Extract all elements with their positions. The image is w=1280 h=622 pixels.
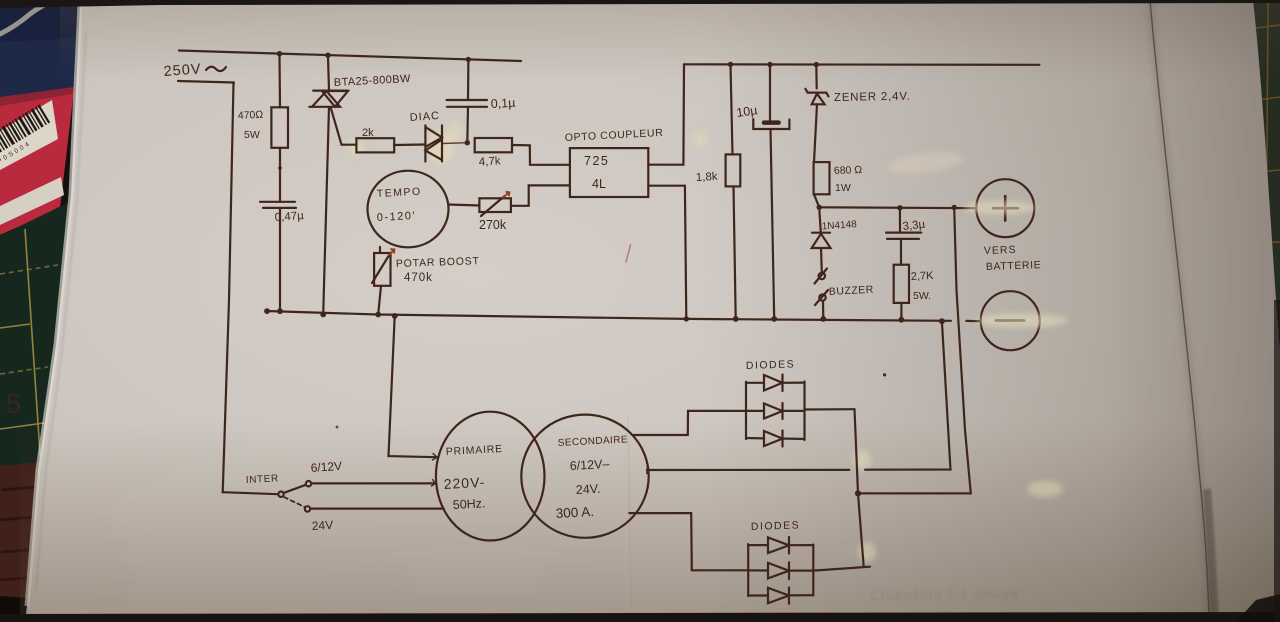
minus sign (996, 319, 1024, 322)
wire: 0,1u cap top lead from rail (467, 60, 470, 100)
grey cable top-left (0, 4, 46, 34)
faint paper fold, center-bottom (628, 415, 631, 608)
wire: secondary center tap (to minus) (647, 321, 951, 470)
paper crease shadow right (1150, 0, 1209, 622)
node L1: 250V AC label (163, 61, 202, 80)
switch INTER: feed wire (223, 492, 278, 494)
wire: 10u bottom lead (771, 129, 775, 319)
label 4,7k (479, 155, 502, 168)
wire: 1N4148 to buzzer (820, 248, 823, 272)
junction dot rail/opto (684, 316, 689, 321)
resistor 680R 1W (814, 162, 830, 194)
svg-text:DIODES: DIODES (746, 358, 796, 372)
wire: 3,3u top lead (899, 208, 901, 233)
green mat wedge, top-right (1250, 0, 1280, 335)
label 3,3u (902, 219, 926, 233)
diode D3 (746, 431, 805, 447)
svg-text:0,1µ: 0,1µ (490, 96, 515, 111)
junction dot rail2/1,8k (728, 62, 733, 67)
red arrow tip 270k (503, 192, 509, 198)
bottom dark strip (0, 612, 1280, 622)
wood table, bottom-left (0, 462, 40, 604)
label 1N4148 (821, 219, 857, 232)
wire: 470R to C0,47 (279, 148, 281, 202)
wire: 2,7k to bottom rail (900, 303, 902, 320)
upper diode bank left bus (745, 382, 747, 439)
svg-text:0,47µ: 0,47µ (274, 210, 304, 224)
label OPTO COUPLEUR 725 4L (565, 127, 664, 191)
stray ink dot (883, 373, 886, 376)
junction dot rail/1,8k (733, 316, 739, 322)
wire: 1N4148 top lead (819, 207, 821, 232)
svg-text:5W: 5W (244, 129, 260, 141)
wire: 2k to diac (394, 143, 425, 146)
junction dot +/3,3u (897, 205, 902, 210)
wire: + feed from bus to + terminal (858, 208, 971, 494)
wire: tempo to 270k (448, 205, 479, 206)
junction dot rail/left end (264, 308, 270, 314)
wire: triac main lead to bottom rail (323, 107, 329, 314)
wire: zener top lead (815, 65, 818, 89)
wire: 680R bottom to +node (814, 194, 819, 207)
svg-text:220V-: 220V- (443, 474, 485, 492)
wire: potar to bottom rail (378, 286, 381, 315)
label ZENER 2,4V (834, 91, 911, 104)
svg-text:1W: 1W (835, 182, 851, 194)
svg-text:300 A.: 300 A. (555, 504, 594, 521)
wire: 0,1u bottom to node C1 (466, 107, 469, 143)
svg-text:4L: 4L (592, 177, 606, 191)
svg-text:270k: 270k (479, 218, 507, 232)
lower diode bank left bus (747, 544, 749, 596)
wire: rail2 (opto output rail) (684, 63, 1039, 66)
transformer secondary circle (521, 415, 648, 538)
resistor 2,7k 5W (894, 265, 909, 303)
junction dot rail/10u (771, 316, 777, 322)
label 2k (362, 127, 374, 139)
svg-text:3,3µ: 3,3µ (902, 219, 926, 233)
svg-text:0-120′: 0-120′ (377, 210, 417, 224)
zener diode 2,4V (805, 89, 828, 105)
junction dot rail2/10u (767, 62, 772, 67)
label 0,47u (274, 210, 304, 224)
wire: C0,47 to bottom rail (279, 208, 281, 311)
junction dot rail/triac (320, 312, 326, 318)
wire: AC neutral vertical to switch (223, 83, 234, 493)
svg-text:ZENER 2,4V.: ZENER 2,4V. (834, 91, 911, 104)
svg-text:680 Ω: 680 Ω (834, 164, 863, 177)
wire: buzzer to bottom rail (822, 301, 824, 319)
terminal + circle (976, 179, 1034, 237)
svg-text:4,7k: 4,7k (479, 155, 502, 168)
SCHEMA1-START (163, 51, 663, 493)
red parcel band (0, 90, 74, 235)
tick at center tap (646, 466, 649, 474)
wire: 470R top lead (278, 56, 281, 108)
junction dot +/down wire (952, 205, 957, 210)
tick at 6/12V entry (432, 480, 436, 487)
faint red slash (626, 245, 631, 262)
svg-text:6/12V: 6/12V (310, 459, 342, 475)
top thin dark strip (0, 0, 1280, 8)
diac symbol (425, 125, 442, 161)
wire: tempo bottom to potar (379, 247, 381, 253)
wire: 10u top lead (769, 65, 771, 121)
wire: top rail (phase) (179, 51, 521, 62)
junction node C1 (465, 140, 470, 145)
junction dot rail/potar (375, 312, 381, 318)
junction blob on lead (278, 166, 282, 170)
AC tilde symbol (206, 67, 226, 71)
label PRIMAIRE 220V 50Hz (443, 443, 503, 512)
svg-text:6/12V–: 6/12V– (569, 457, 609, 473)
blue box (navy object, top-left) (0, 5, 82, 100)
wire: diode output bus down (855, 409, 864, 567)
junction dot rail2/zener (814, 62, 819, 67)
red arrow tip 470k (389, 249, 394, 255)
label BUZZER (829, 284, 875, 298)
buzzer contacts (819, 273, 825, 279)
diode D4 (748, 537, 813, 554)
green cutting mat, left (0, 204, 92, 470)
wire: 24V to primary (310, 508, 443, 510)
wire: secondary top output to upper diodes (634, 411, 746, 435)
svg-text:5: 5 (6, 389, 21, 419)
label DIAC (409, 110, 440, 124)
label DIODES lower (751, 519, 801, 533)
svg-text:VERS: VERS (984, 244, 1017, 257)
svg-text:24V: 24V (311, 518, 333, 533)
resistor 470R 5W (271, 107, 288, 148)
wire: opto pin4 to rail2 (648, 64, 684, 164)
diode D2 (746, 403, 805, 419)
diode 1N4148 (812, 233, 831, 248)
diode D5 (748, 562, 813, 579)
white-out streaks over terminals (886, 148, 1068, 327)
wire: 250V lower terminal (178, 81, 234, 83)
svg-text:BUZZER: BUZZER (829, 284, 875, 298)
wire: zener to 680R (814, 104, 817, 162)
svg-text:10µ: 10µ (735, 103, 758, 120)
switch lever (284, 485, 306, 493)
wire: 1,8k bottom lead (734, 186, 736, 319)
svg-text:BATTERIE: BATTERIE (986, 259, 1042, 273)
label 270k (479, 218, 507, 232)
svg-text:TEMPO: TEMPO (377, 186, 422, 200)
resistor 2k (356, 138, 394, 152)
lower diode bank right bus (812, 545, 814, 596)
label POTAR BOOST 470k (396, 255, 480, 284)
wire: diac to node C1 (442, 142, 467, 145)
wire: opto pin3 down to bottom rail (648, 186, 686, 319)
junction dot 680R/+wire (817, 205, 822, 210)
potentiometer POTAR BOOST 470k (374, 253, 390, 286)
label 10u (735, 103, 758, 120)
label 680R 1W (834, 164, 863, 194)
paper edge highlight, left (27, 4, 80, 606)
white stripe under red band (0, 177, 64, 225)
opto-coupler U1 box (570, 148, 648, 197)
svg-text:725: 725 (584, 154, 609, 168)
resistor 1,8k (726, 154, 741, 186)
switch contact 6/12V (306, 481, 311, 486)
capacitor 0,1u (447, 100, 487, 107)
triac BTA25 top lead (328, 57, 329, 91)
terminal - circle (981, 291, 1040, 350)
tick at primary feed entry (433, 454, 438, 461)
junction dots on rail1 (277, 51, 282, 56)
wire: secondary bottom output to lower diodes (629, 513, 748, 570)
triac BTA25-800BW symbol (309, 91, 348, 107)
svg-text:DIODES: DIODES (751, 519, 801, 533)
label 2,7k 5W (911, 270, 935, 302)
transformer primary circle (436, 412, 545, 541)
wire: 4,7k to opto pin1 (512, 145, 570, 165)
junction dot rail/primary feed (392, 313, 398, 319)
label 470R value (238, 109, 264, 141)
svg-text:INTER: INTER (246, 473, 280, 486)
switch dashed throw to 24V (284, 497, 305, 507)
resistor 4,7k (475, 138, 512, 152)
label INTER (246, 459, 343, 533)
wire: bottom rail down to primary (389, 316, 438, 457)
svg-text:24V.: 24V. (575, 482, 600, 497)
junction dot rail/center-tap drop (939, 318, 945, 324)
label VERS BATTERIE (984, 244, 1042, 273)
black bottom-left corner (0, 596, 58, 622)
plus sign (993, 196, 1018, 221)
diode D1 (746, 375, 805, 392)
wire: 1,8k top lead (731, 64, 733, 154)
svg-text:470Ω: 470Ω (238, 109, 264, 122)
stray ink dot 2 (336, 426, 339, 429)
wire: + line to battery (819, 206, 976, 209)
wire: 6/12V to primary (311, 482, 435, 484)
highlighter blobs under ink (348, 123, 1063, 562)
junction dot rail/buzzer (820, 316, 826, 322)
svg-text:Clubofoto | 1 image: Clubofoto | 1 image (870, 585, 1021, 603)
svg-text:5W.: 5W. (913, 290, 931, 302)
svg-text:250V: 250V (163, 61, 202, 80)
label DIODES upper (746, 358, 796, 372)
svg-text:2,7K: 2,7K (911, 270, 935, 283)
barcode label (white, rotated) (0, 100, 58, 170)
label BTA25-800BW (334, 73, 412, 89)
junction dot rail/0,47u (277, 308, 283, 314)
label 0,1u (490, 96, 515, 111)
label 1,8k (696, 171, 719, 184)
wire: bottom rail (0V) (266, 311, 980, 321)
timer TEMPO circle (368, 171, 449, 248)
SCHEMA3-START (223, 208, 971, 604)
potentiometer 270k (479, 198, 511, 212)
svg-text:50Hz.: 50Hz. (452, 496, 485, 512)
svg-text:2k: 2k (362, 127, 374, 139)
upper diode bank right bus (803, 382, 805, 441)
diode D6 (748, 588, 813, 604)
wire: 270k to opto pin2 (511, 185, 570, 205)
switch pole contact (278, 492, 283, 497)
OVERLAY-START (628, 148, 1068, 608)
paper shading (60, 0, 1280, 80)
switch contact 24V (305, 506, 310, 511)
label TEMPO 0-120 (377, 186, 422, 224)
capacitor 0,47u (260, 202, 296, 208)
capacitor 10u (polarized) (753, 119, 789, 129)
SCHEMA2-START (264, 51, 1041, 350)
capacitor 3,3u (886, 233, 921, 239)
svg-text:470k: 470k (404, 272, 433, 284)
svg-text:DIAC: DIAC (409, 110, 440, 124)
wire: 3,3u to 2,7k (900, 239, 902, 265)
label SECONDAIRE 6/12V 24V 300A (555, 434, 628, 521)
wire: upper bank output (805, 408, 855, 410)
svg-text:1,8k: 1,8k (696, 171, 719, 184)
wire: triac gate diagonal (331, 109, 356, 145)
wire: lower bank output to bus (813, 567, 870, 571)
junction dot output bus / + feed (855, 490, 861, 496)
junction dot rail/2,7k (899, 317, 905, 323)
